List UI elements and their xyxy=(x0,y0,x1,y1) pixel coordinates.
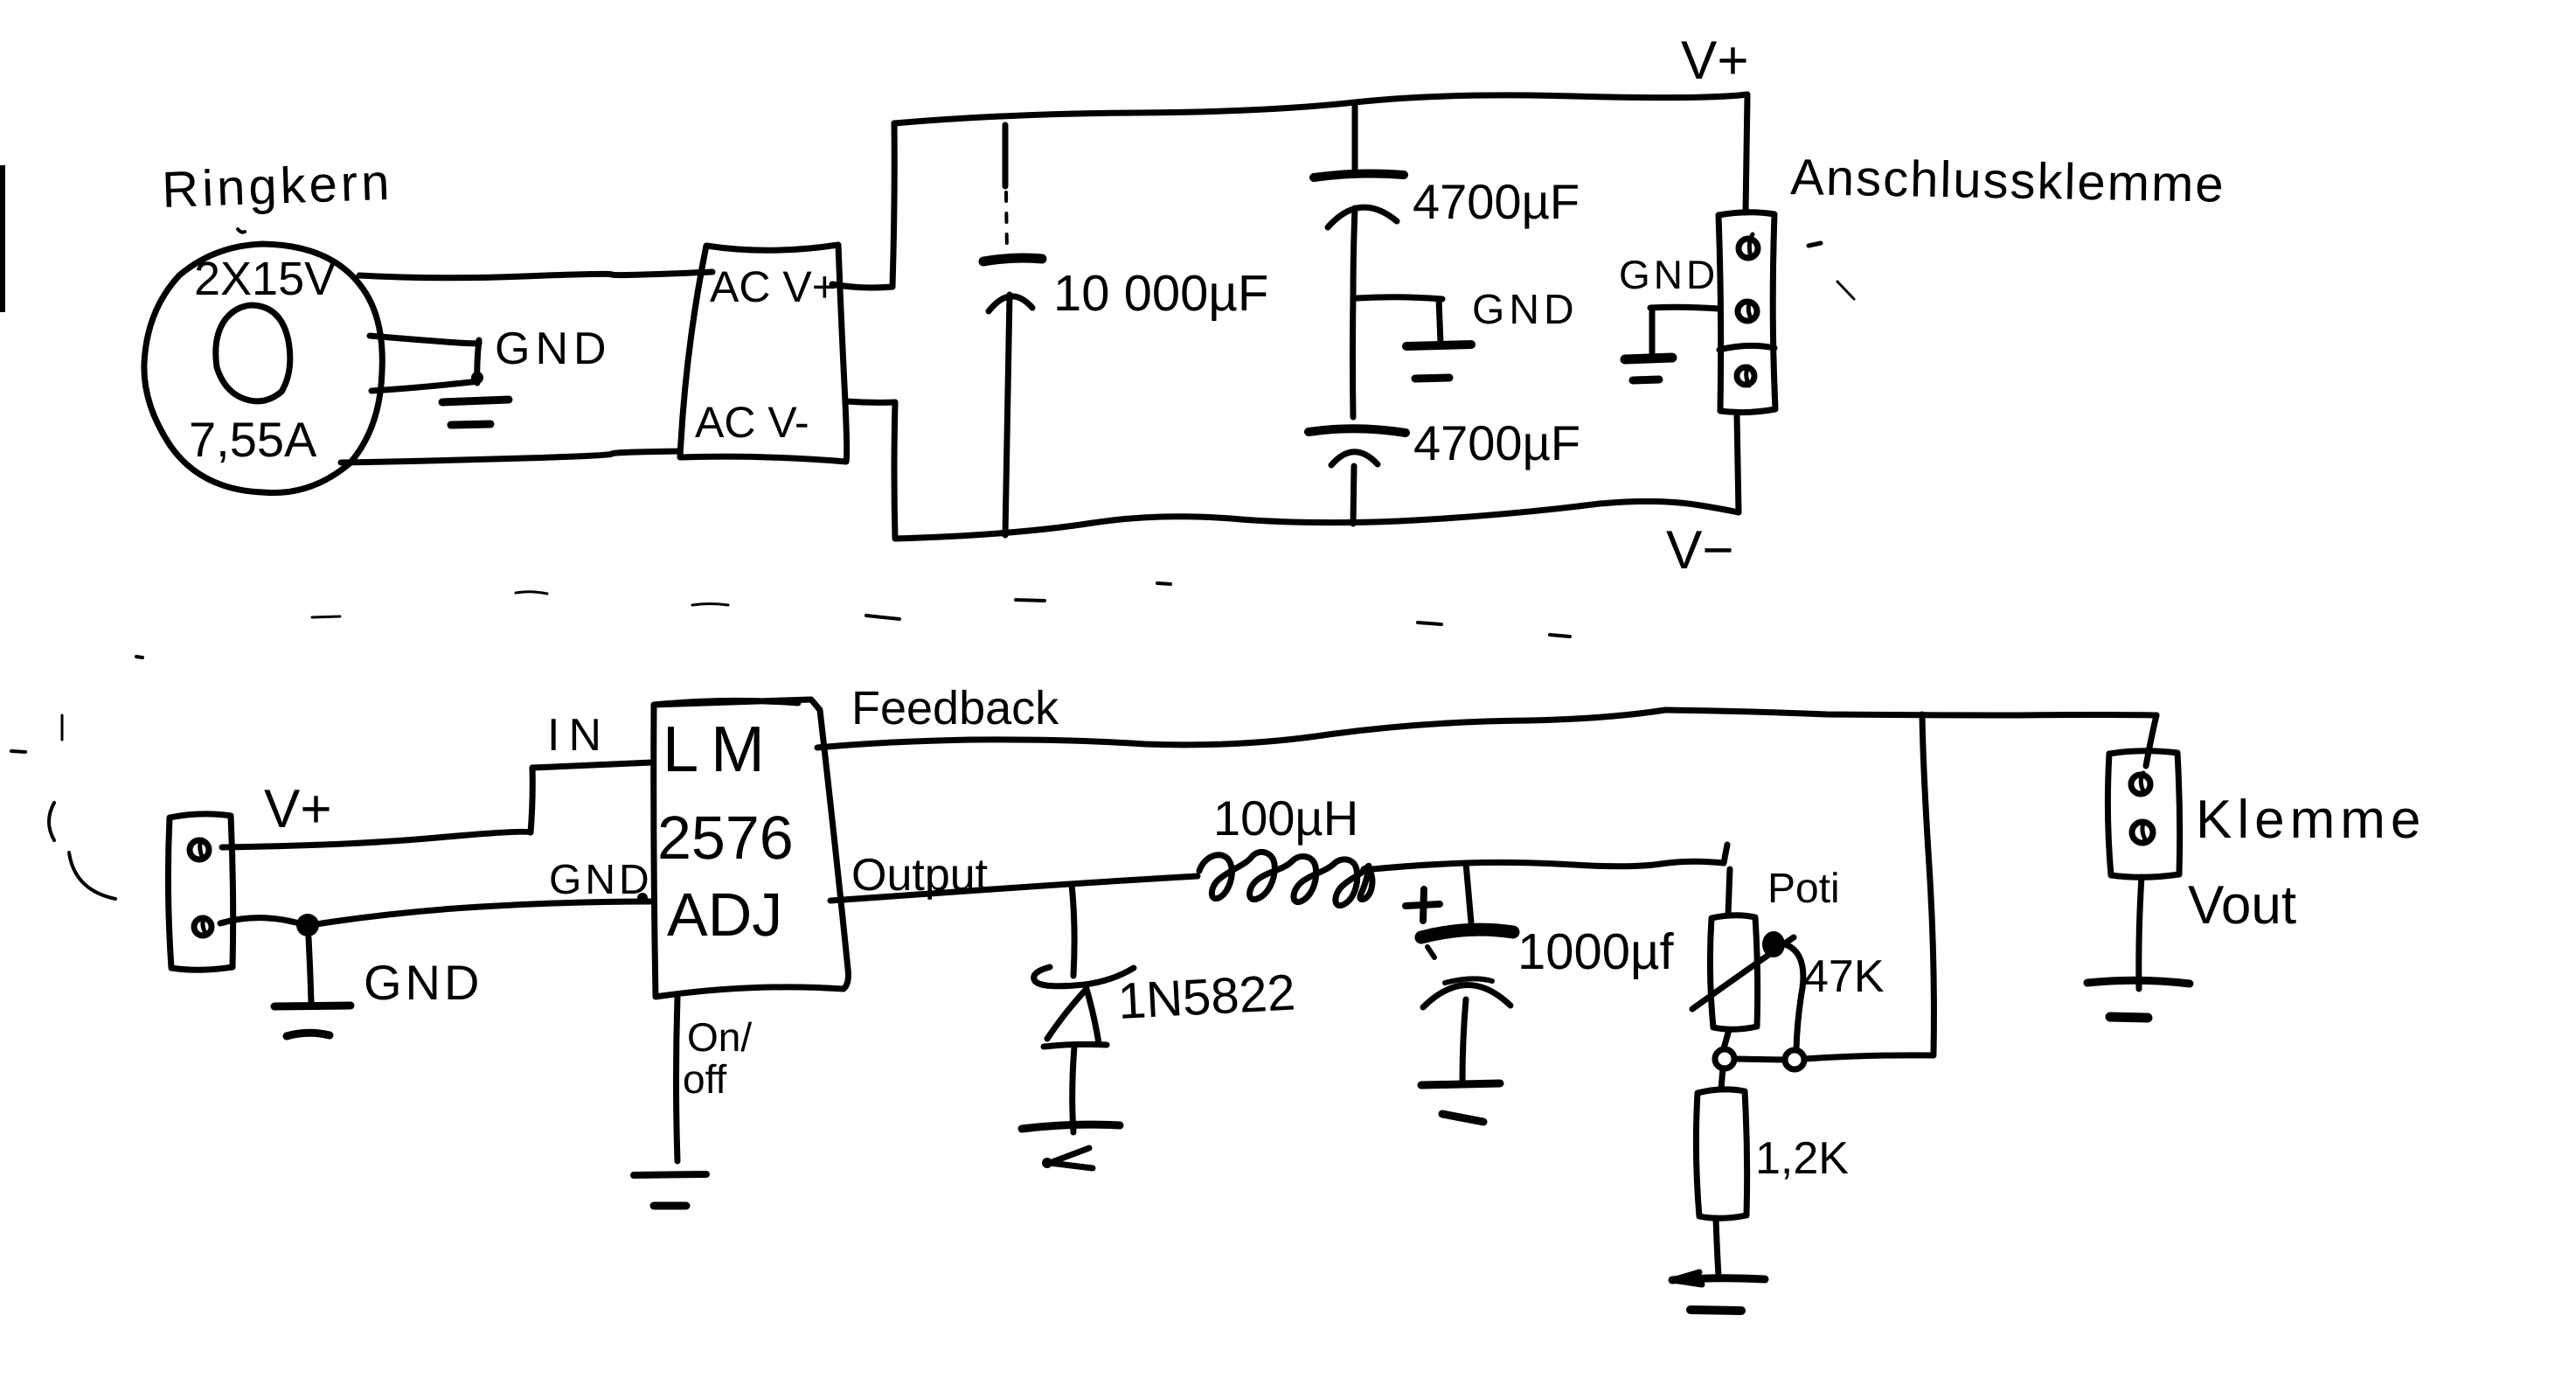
regulator U1 on/off pin wire xyxy=(677,998,678,1161)
ground symbol C bar2 xyxy=(1633,379,1659,380)
svg-text:2X15V: 2X15V xyxy=(194,253,336,305)
svg-text:GND: GND xyxy=(549,857,653,903)
ground symbol I bar2 xyxy=(654,1202,686,1210)
wire capacitor string mid vertical xyxy=(1350,296,1357,417)
svg-text:1N5822: 1N5822 xyxy=(1116,964,1296,1030)
wire feedback rail xyxy=(817,710,2156,748)
wire left vertical of bottom rail V- xyxy=(894,402,895,538)
ground symbol G bar2 xyxy=(1691,1310,1741,1311)
capacitor C1 10000uF lead top xyxy=(1003,125,1009,186)
svg-text:On/: On/ xyxy=(687,1014,752,1060)
svg-text:AC V+: AC V+ xyxy=(710,262,837,311)
terminal block Vout body xyxy=(2107,751,2179,878)
svg-text:Klemme: Klemme xyxy=(2196,790,2426,850)
ground symbol B bar2 xyxy=(1415,378,1449,379)
ground symbol H bar2 xyxy=(2110,1017,2148,1018)
rectifier bridge block xyxy=(680,245,847,462)
scan artifact tick xyxy=(61,715,64,740)
terminal pin 2 xyxy=(1738,302,1757,321)
capacitor C4 curved plate inner xyxy=(1445,978,1492,983)
capacitor C1 top plate xyxy=(983,258,1042,261)
inductor L1 100uH coil xyxy=(1199,852,1372,905)
potentiometer R1 body xyxy=(1710,915,1757,1030)
capacitor C3 lead bottom xyxy=(1353,466,1354,524)
svg-text:off: off xyxy=(683,1056,727,1102)
capacitor C2 4700uF top lead xyxy=(1352,104,1358,171)
capacitor C2 curved plate xyxy=(1328,207,1397,227)
wire C2/C3 midpoint to ground stub xyxy=(1357,297,1442,299)
ground symbol D bar1 xyxy=(274,1006,351,1006)
junction dot GND tap xyxy=(471,372,483,384)
svg-text:Feedback: Feedback xyxy=(851,682,1059,734)
capacitor C3 4700uF top plate xyxy=(1309,428,1406,433)
scan artifact dash 3 xyxy=(312,616,340,617)
wire GND drop xyxy=(309,937,311,1003)
scan artifact dash 2 xyxy=(692,604,728,606)
svg-text:IN: IN xyxy=(547,710,610,761)
diode D1 cathode bar swash xyxy=(1034,967,1134,986)
ground symbol A bar1 xyxy=(442,400,509,402)
ground symbol F bar2 xyxy=(1442,1114,1483,1122)
wire transformer lower to GND junction xyxy=(371,381,477,391)
resistor R2 1.2K top lead xyxy=(1721,1068,1723,1089)
wire IN into LM xyxy=(532,762,652,768)
capacitor C4 plus sign vertical xyxy=(1423,889,1424,921)
wire transformer top to rectifier AC V+ xyxy=(359,272,712,278)
scan artifact dash 8 xyxy=(1550,635,1570,637)
wire ground stub vertical xyxy=(1439,299,1441,343)
capacitor C1 curved plate xyxy=(989,296,1032,311)
wire IN step vertical xyxy=(531,768,532,832)
svg-text:1000µf: 1000µf xyxy=(1517,923,1674,980)
scan artifact dash 7 xyxy=(1418,623,1441,624)
transformer T1 toroid inner xyxy=(216,305,290,401)
wire top rail V+ xyxy=(894,94,1747,123)
wire V- rail corner up to terminal xyxy=(1737,414,1739,512)
scan artifact diagonal ticks xyxy=(1837,282,1854,299)
terminal block Anschlussklemme divider xyxy=(1719,345,1774,350)
capacitor C3 curved plate xyxy=(1331,452,1378,465)
wire left vertical of filter rail V+ xyxy=(892,123,894,287)
svg-text:V+: V+ xyxy=(1681,31,1749,91)
svg-text:Poti: Poti xyxy=(1767,866,1840,912)
svg-text:7,55A: 7,55A xyxy=(189,412,317,467)
ground symbol H bar1 xyxy=(2087,980,2190,984)
capacitor C4 plate tail xyxy=(1427,947,1434,957)
scan artifact tick under Ringkern xyxy=(238,229,245,233)
wire GND C vertical xyxy=(1649,308,1656,353)
scan artifact dash 5 xyxy=(1016,600,1045,601)
regulator U1 LM2576 body xyxy=(654,699,849,997)
svg-text:100µH: 100µH xyxy=(1213,790,1358,846)
svg-text:ADJ: ADJ xyxy=(667,880,782,949)
svg-text:Anschlussklemme: Anschlussklemme xyxy=(1790,149,2225,213)
scan artifact dash 1 xyxy=(516,592,547,594)
svg-text:V+: V+ xyxy=(264,779,332,839)
wire transformer bottom to rectifier AC V- xyxy=(341,451,680,463)
terminal Vin pin 1 xyxy=(190,840,209,860)
ground symbol E arrow mark xyxy=(1050,1148,1093,1168)
resistor R2 1.2K body xyxy=(1696,1089,1746,1218)
diode D1 triangle right side xyxy=(1087,989,1099,1043)
scan artifact dash 9 xyxy=(11,751,25,752)
capacitor C2 top plate xyxy=(1314,174,1404,177)
wire GND tap vertical tick xyxy=(477,340,479,383)
potentiometer R1 lead top xyxy=(1728,869,1730,915)
potentiometer R1 wiper dot xyxy=(1762,931,1785,957)
scan artifact dots xyxy=(136,657,142,658)
scan artifact arc 1 xyxy=(49,803,54,840)
potentiometer R1 wiper wire down xyxy=(1779,943,1803,1049)
wire R2 bottom lead xyxy=(1716,1218,1718,1276)
terminal block Anschlussklemme body xyxy=(1718,212,1775,413)
junction dot at LM GND pin xyxy=(637,893,648,903)
ground symbol F bar1 xyxy=(1421,1083,1500,1085)
junction dot GND bottom xyxy=(296,914,319,936)
ground symbol C bar1 xyxy=(1625,358,1672,359)
scan artifact dash 6 xyxy=(1157,583,1170,584)
transformer T1 toroid outer xyxy=(144,244,382,493)
scan artifact dash 4 xyxy=(866,616,899,619)
ground symbol E dot xyxy=(1042,1158,1052,1168)
wire GND to LM xyxy=(316,901,652,924)
diode D1 triangle left side xyxy=(1047,989,1087,1039)
ground symbol A bar2 xyxy=(451,424,490,425)
capacitor C4 top plate thick xyxy=(1421,929,1513,937)
wire output from LM xyxy=(830,876,1198,901)
wire feedback corner down to Vout terminal xyxy=(2146,715,2156,766)
svg-text:2576: 2576 xyxy=(657,804,794,872)
wire Vout to ground xyxy=(2139,877,2142,989)
scan artifact left edge bar xyxy=(0,165,5,312)
wire bottom rail V- xyxy=(895,501,1739,539)
svg-text:GND: GND xyxy=(495,324,612,374)
wire junction row xyxy=(1734,1055,1934,1060)
svg-text:Ringkern: Ringkern xyxy=(161,154,393,219)
ground symbol E bar1 xyxy=(1022,1124,1120,1129)
wire transformer middle to GND tap xyxy=(370,336,479,344)
ground symbol I bar1 xyxy=(634,1174,706,1175)
scan artifact arc 2 xyxy=(69,853,115,899)
diode D1 junction vertical xyxy=(1072,884,1074,976)
terminal pin 3 xyxy=(1737,367,1754,385)
capacitor C4 lead bottom xyxy=(1462,999,1466,1082)
svg-text:Vout: Vout xyxy=(2188,875,2296,936)
svg-text:47K: 47K xyxy=(1803,951,1885,1002)
wire output rail after coil xyxy=(1364,861,1724,870)
potentiometer R1 wiper arrow xyxy=(1692,937,1794,1009)
svg-text:AC V-: AC V- xyxy=(695,398,809,447)
capacitor C4 curved plate xyxy=(1423,985,1510,1007)
wire feedback drop vertical xyxy=(1922,714,1934,1054)
wire GND bottom from terminal xyxy=(220,918,308,926)
svg-text:4700µF: 4700µF xyxy=(1413,415,1580,470)
capacitor C1 lead dashed xyxy=(1006,192,1007,252)
terminal pin 1 xyxy=(1739,239,1758,258)
junction ring right xyxy=(1785,1050,1804,1069)
scan artifact dash right of terminal xyxy=(1809,243,1821,246)
svg-text:LM: LM xyxy=(663,713,777,785)
wire rectifier V- stub xyxy=(846,401,895,402)
capacitor C4 plus sign horizontal xyxy=(1406,904,1440,906)
terminal Vin pin 2 xyxy=(194,918,212,936)
wire poti bottom to junction xyxy=(1724,1030,1729,1048)
capacitor C1 lead bottom xyxy=(1005,295,1010,535)
wire Vin to IN step xyxy=(222,832,531,847)
svg-text:GND: GND xyxy=(364,955,483,1010)
ground symbol G bar1 xyxy=(1672,1278,1765,1280)
svg-text:GND: GND xyxy=(1472,287,1579,333)
wire GND to terminal pin2 xyxy=(1650,307,1718,309)
svg-text:1,2K: 1,2K xyxy=(1755,1133,1849,1184)
svg-text:GND: GND xyxy=(1619,252,1718,297)
terminal Vout pin 1 xyxy=(2131,775,2150,794)
ground symbol D bar2 xyxy=(287,1033,330,1036)
svg-text:4700µF: 4700µF xyxy=(1413,174,1580,229)
terminal Vout pin 2 xyxy=(2132,822,2153,843)
ground symbol G arrowhead xyxy=(1673,1272,1702,1284)
svg-text:V−: V− xyxy=(1666,520,1734,581)
capacitor C4 1000uF lead xyxy=(1466,863,1471,922)
junction ring left xyxy=(1715,1049,1734,1068)
wire V+ rail corner down to terminal xyxy=(1746,96,1747,212)
capacitor C2 lead down xyxy=(1353,208,1355,296)
wire diode to ground xyxy=(1073,1047,1074,1132)
svg-text:10 000µF: 10 000µF xyxy=(1053,265,1268,322)
wire rectifier V+ stub to rail xyxy=(832,284,892,288)
wire end tick at poti top xyxy=(1724,845,1727,863)
diode D1 triangle base xyxy=(1044,1044,1107,1047)
terminal block Vin body xyxy=(168,814,233,970)
ground symbol B bar1 xyxy=(1406,345,1471,346)
